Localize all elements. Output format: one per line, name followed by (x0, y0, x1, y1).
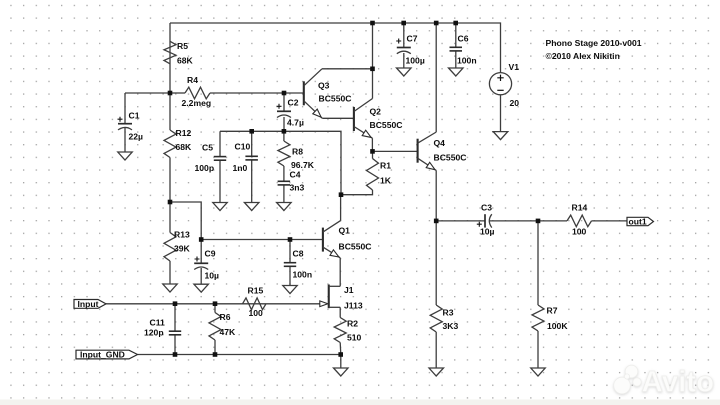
svg-text:C7: C7 (407, 34, 418, 44)
svg-text:BC550C: BC550C (319, 94, 352, 104)
svg-text:Q4: Q4 (434, 138, 446, 148)
ground V1 (493, 132, 508, 140)
wire R6 bottom lead (214, 340, 216, 355)
junction R6 top (213, 301, 218, 306)
resistor R8 (278, 141, 290, 166)
label Q2 (370, 107, 382, 117)
svg-text:BC550C: BC550C (339, 242, 372, 252)
wire Q1 emitter to J1 drain (339, 258, 341, 287)
wire C6 lead (455, 23, 457, 47)
label C4 (290, 170, 301, 180)
resistor R13 (164, 233, 176, 262)
label C1 (129, 111, 140, 121)
wire J1 source to R2 (339, 307, 341, 317)
label C9 (205, 249, 216, 259)
capacitor C10 (245, 156, 258, 160)
ground R3 (429, 368, 444, 376)
capacitor C5 (214, 157, 226, 161)
transistor Q3 (BC550C) (304, 69, 323, 119)
wire R12 rail (169, 93, 171, 130)
junction R6 bottom (213, 352, 218, 357)
svg-text:2.2meg: 2.2meg (182, 98, 212, 108)
wire C5 to ground (219, 160, 221, 202)
resistor R15 (243, 298, 267, 310)
resistor R3 (430, 305, 442, 332)
wire C7 to ground (403, 53, 405, 68)
wire shunt net C5-C10-R8 (220, 131, 341, 194)
svg-text:3n3: 3n3 (290, 183, 305, 193)
label C3 (481, 203, 492, 213)
capacitor C9 (polarized) (194, 257, 208, 270)
wire C7 lead (403, 23, 405, 48)
wire C8 to ground (289, 266, 291, 285)
wire R12 bottom to node B (169, 158, 171, 233)
svg-text:out1: out1 (629, 217, 647, 227)
resistor R12 (164, 130, 176, 158)
watermark Avito logo circles (614, 365, 714, 398)
wire R13 to ground (169, 261, 171, 284)
value C8 100n (293, 270, 313, 280)
svg-text:©2010 Alex Nikitin: ©2010 Alex Nikitin (546, 51, 620, 61)
junction rail Q4 drop (434, 21, 439, 26)
label R13 (174, 230, 190, 240)
svg-text:68K: 68K (176, 142, 193, 152)
label Q3 (318, 81, 330, 91)
value C4 3n3 (290, 183, 305, 193)
transistor Q2 (BC550C) (354, 99, 373, 139)
wire base line to Q1 (201, 239, 323, 241)
junction C10 top (249, 129, 254, 134)
port Input (74, 300, 106, 309)
voltage source V1 (489, 73, 511, 95)
svg-text:Q3: Q3 (318, 81, 330, 91)
wire Q3 emitter to Q2 base (322, 117, 354, 119)
wire R7 to ground (537, 331, 539, 368)
svg-text:510: 510 (347, 333, 362, 343)
wire C2 bottom lead (283, 117, 285, 131)
svg-text:R5: R5 (177, 41, 188, 51)
value R3 3K3 (443, 321, 459, 331)
svg-text:R7: R7 (547, 306, 558, 316)
label V1 (509, 62, 520, 72)
wire R1 top lead (372, 151, 374, 158)
wire input ground line (138, 354, 341, 356)
junction C9 node (199, 237, 204, 242)
label R2 (347, 319, 358, 329)
wire R5 branch (169, 23, 171, 93)
junction Q1 collector / R1 node (339, 192, 344, 197)
wire C5 lead (219, 131, 221, 156)
wire R3 to ground (435, 332, 437, 368)
resistor R4 (185, 87, 210, 99)
value Q3 BC550C (319, 94, 352, 104)
value C5 100p (195, 163, 215, 173)
wire C9 lead (200, 240, 202, 264)
wire R2 bottom lead (339, 343, 342, 355)
svg-text:100K: 100K (547, 321, 568, 331)
wire R8 to C4 (283, 166, 285, 181)
svg-text:1K: 1K (380, 176, 392, 186)
value R4 2.2meg (182, 98, 212, 108)
svg-text:R6: R6 (220, 312, 231, 322)
wire C8 lead (289, 240, 291, 263)
label port Input (78, 299, 99, 309)
ground C10 (244, 203, 259, 211)
title line 1 (546, 38, 642, 48)
wire rail drop to Q4 collector (435, 23, 437, 132)
ground R7 (531, 368, 545, 376)
junction C11 bottom (173, 352, 178, 357)
label R14 (572, 203, 588, 213)
wire R1 bottom to Q1 collector node (341, 190, 373, 195)
svg-text:C1: C1 (129, 111, 140, 121)
junction node B (R12/R13) (168, 200, 173, 205)
label R5 (177, 41, 188, 51)
value J1 J113 (344, 301, 363, 311)
svg-text:V1: V1 (509, 62, 520, 72)
junction R2 ground node (338, 352, 343, 357)
ground C9 (194, 284, 209, 292)
port Input_GND (76, 350, 138, 359)
label Q1 (339, 226, 351, 236)
resistor R7 (532, 305, 544, 331)
svg-text:C9: C9 (205, 249, 216, 259)
value R1 1K (380, 176, 392, 186)
wire C2 top lead (283, 93, 285, 111)
junction Q3 collector node (370, 67, 375, 72)
wire R2 bottom node to ground (340, 355, 342, 369)
value R7 100K (547, 321, 568, 331)
junction rail Q2 drop (370, 21, 375, 26)
svg-text:100: 100 (572, 227, 587, 237)
transistor Q4 (BC550C) (418, 132, 437, 171)
svg-text:100µ: 100µ (406, 56, 425, 66)
label R4 (187, 75, 198, 85)
svg-text:R14: R14 (572, 203, 588, 213)
value Q2 BC550C (370, 120, 403, 130)
resistor R5 (164, 41, 176, 64)
svg-text:68K: 68K (177, 56, 194, 66)
wire C1 lead (124, 93, 126, 124)
ground C5 (213, 203, 227, 211)
wire input line (106, 303, 322, 305)
junction rail C7 (401, 21, 406, 26)
value R14 100 (572, 227, 587, 237)
label R1 (380, 161, 391, 171)
wire C11 bottom lead (174, 335, 176, 355)
value R15 100 (249, 308, 264, 318)
resistor R6 (209, 313, 221, 341)
ground R13 (163, 284, 177, 292)
wire C6 to ground (455, 51, 457, 68)
capacitor C2 (polarized) (277, 104, 292, 118)
svg-text:R15: R15 (248, 286, 264, 296)
wire C10 lead (251, 131, 253, 156)
wire C4 to ground (283, 185, 285, 203)
value C11 120p (144, 328, 164, 338)
value C7 100µ (406, 56, 425, 66)
wire node B to C9 column (170, 202, 201, 240)
svg-text:39K: 39K (174, 244, 191, 254)
value R6 47K (220, 327, 237, 337)
svg-text:4.7µ: 4.7µ (287, 118, 304, 128)
junction output node (434, 219, 439, 224)
value R13 39K (174, 244, 191, 254)
svg-text:R8: R8 (292, 147, 303, 157)
svg-text:10µ: 10µ (205, 271, 220, 281)
svg-text:Phono Stage 2010-v001: Phono Stage 2010-v001 (546, 38, 642, 48)
resistor R14 (567, 215, 592, 227)
svg-text:Q2: Q2 (370, 107, 382, 117)
svg-text:Input_GND: Input_GND (80, 350, 125, 360)
svg-text:100p: 100p (195, 163, 215, 173)
port out1 (627, 217, 654, 225)
wire C11 top lead (174, 304, 176, 331)
value R8 96.7K (291, 160, 315, 170)
junction Q2 emitter node (370, 149, 375, 154)
wire C10 to ground (251, 160, 253, 203)
svg-text:100n: 100n (293, 270, 313, 280)
svg-text:J1: J1 (344, 285, 354, 295)
svg-text:J113: J113 (344, 301, 363, 311)
wire R3 top lead (435, 221, 437, 305)
value C6 100n (457, 56, 477, 66)
value C9 10µ (205, 271, 220, 281)
svg-text:C5: C5 (202, 143, 213, 153)
svg-text:C4: C4 (290, 170, 301, 180)
svg-text:20: 20 (510, 98, 520, 108)
capacitor C1 (polarized) (118, 117, 133, 130)
value C10 1n0 (233, 163, 248, 173)
capacitor C6 (450, 47, 463, 51)
junction C2 top (282, 91, 287, 96)
wire Q4 emitter to output node (435, 171, 437, 221)
label C11 (150, 318, 166, 328)
capacitor C8 (284, 263, 296, 267)
value Q4 BC550C (434, 153, 467, 163)
junction C2/R8 node (282, 129, 287, 134)
label R3 (443, 308, 454, 318)
junction node A (R5/R4/R12) (168, 91, 173, 96)
label port Input_GND (80, 350, 125, 360)
capacitor C7 (polarized) (396, 39, 411, 54)
svg-text:R2: R2 (347, 319, 358, 329)
wire R7 top lead (537, 221, 539, 305)
svg-text:R3: R3 (443, 308, 454, 318)
svg-text:22µ: 22µ (129, 132, 144, 142)
wire output node to C3 (436, 220, 485, 222)
svg-text:Input: Input (78, 299, 99, 309)
svg-text:R13: R13 (174, 230, 190, 240)
svg-text:C10: C10 (235, 142, 251, 152)
wire top supply rail (170, 23, 501, 73)
ground R2 (334, 368, 349, 376)
ground C4 (277, 203, 292, 211)
wire C1 to ground (124, 128, 126, 152)
svg-text:96.7K: 96.7K (291, 160, 315, 170)
label C7 (407, 34, 418, 44)
wire R6 top lead (214, 304, 216, 313)
title line 2 (546, 51, 620, 61)
capacitor C11 (169, 331, 181, 335)
ground C8 (283, 286, 297, 294)
svg-text:100n: 100n (457, 56, 477, 66)
label R8 (292, 147, 303, 157)
svg-text:R1: R1 (380, 161, 391, 171)
svg-text:BC550C: BC550C (434, 153, 467, 163)
wire C9 to ground (200, 268, 202, 284)
JFET J1 (J113) (320, 285, 340, 309)
label C5 (202, 143, 213, 153)
label C2 (288, 98, 299, 108)
junction C8 node (288, 237, 293, 242)
bottom edge strip (0, 400, 720, 405)
svg-text:10µ: 10µ (480, 227, 495, 237)
wire V1 to ground (500, 95, 502, 132)
resistor R2 (334, 318, 346, 343)
value R12 68K (176, 142, 193, 152)
wire Q1 collector lead (340, 195, 342, 221)
transistor Q1 (BC550C) (323, 221, 341, 258)
label C10 (235, 142, 251, 152)
value C1 22µ (129, 132, 144, 142)
wire node A to C1 branch (125, 92, 170, 94)
value V1 20 (510, 98, 520, 108)
label C8 (293, 249, 304, 259)
svg-text:3K3: 3K3 (443, 321, 459, 331)
ground C7 (397, 68, 412, 76)
label port out1 (629, 217, 647, 227)
junction R7 node (536, 219, 541, 224)
ground C6 (449, 68, 464, 76)
label R7 (547, 306, 558, 316)
wire node A to R4 (170, 92, 185, 94)
svg-text:C8: C8 (293, 249, 304, 259)
svg-text:1n0: 1n0 (233, 163, 248, 173)
wire rail drop to Q2 collector (372, 23, 374, 99)
wire R14 to out1 port (592, 220, 628, 222)
svg-text:Q1: Q1 (339, 226, 351, 236)
capacitor C4 (278, 181, 291, 185)
wire node to Q4 base (373, 150, 418, 152)
wire Q2 emitter node (371, 138, 373, 151)
value C2 4.7µ (287, 118, 304, 128)
svg-text:R12: R12 (176, 128, 192, 138)
svg-text:120p: 120p (144, 328, 164, 338)
label C6 (458, 34, 469, 44)
label R12 (176, 128, 192, 138)
ground C1 (118, 152, 132, 160)
svg-text:R4: R4 (187, 75, 198, 85)
label R6 (220, 312, 231, 322)
svg-text:C2: C2 (288, 98, 299, 108)
svg-text:Avito: Avito (642, 366, 715, 399)
svg-text:BC550C: BC550C (370, 120, 403, 130)
wire Q3 collector to rail tap (322, 68, 373, 70)
capacitor C3 (polarized) (477, 214, 492, 227)
wire R4 to Q3 base (210, 92, 304, 94)
label Q4 (434, 138, 446, 148)
label R15 (248, 286, 264, 296)
svg-text:100: 100 (249, 308, 264, 318)
label J1 (344, 285, 354, 295)
junction C11 top (173, 301, 178, 306)
svg-text:C11: C11 (150, 318, 166, 328)
svg-text:C3: C3 (481, 203, 492, 213)
svg-text:C6: C6 (458, 34, 469, 44)
wire C3 to R7 node (490, 220, 567, 222)
wire R8 top lead (283, 131, 285, 141)
resistor R1 (367, 159, 379, 191)
junction rail C6 (453, 21, 458, 26)
value R5 68K (177, 56, 194, 66)
value R2 510 (347, 333, 362, 343)
svg-text:47K: 47K (220, 327, 237, 337)
value Q1 BC550C (339, 242, 372, 252)
value C3 10µ (480, 227, 495, 237)
